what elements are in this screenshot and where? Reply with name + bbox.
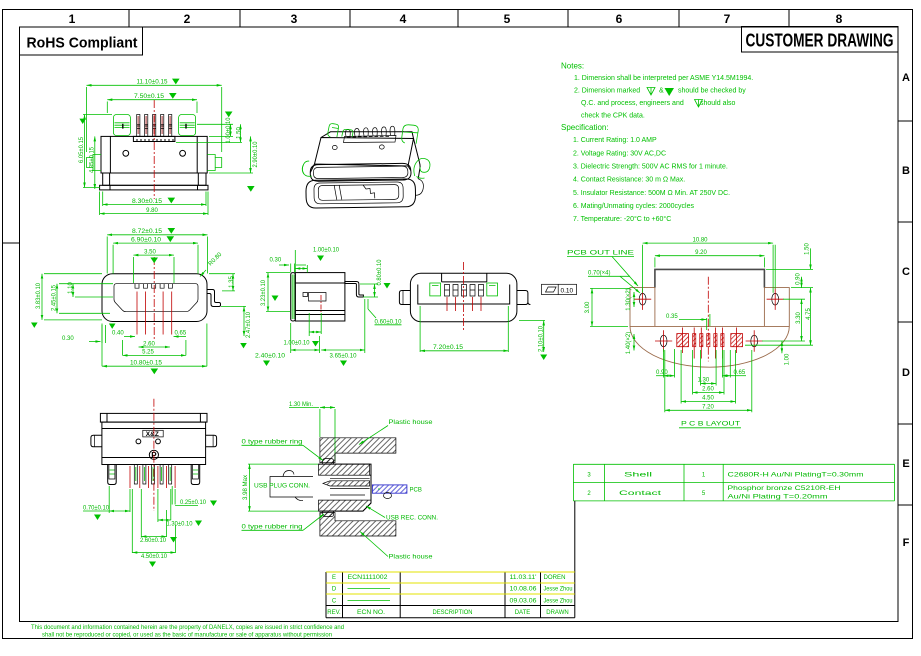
front view dim 5.25 — [123, 340, 186, 356]
svg-text:4.35±0.15: 4.35±0.15 — [90, 146, 96, 173]
svg-text:Shell: Shell — [624, 473, 652, 479]
svg-text:0.70(×4): 0.70(×4) — [588, 271, 611, 277]
side view: body — [295, 273, 345, 321]
svg-text:2.60: 2.60 — [702, 387, 714, 393]
svg-text:4: 4 — [400, 12, 407, 26]
flatness control frame — [542, 284, 577, 294]
pcb layout: connector shell outline — [655, 269, 765, 287]
top view: pin 3 — [153, 115, 156, 137]
front view dim 1.35 — [209, 274, 235, 291]
svg-text:1.40(×2): 1.40(×2) — [626, 332, 632, 355]
note 2 inspection symbols — [647, 88, 703, 108]
zone ticks top — [129, 10, 789, 28]
isometric view: collar ring — [310, 163, 411, 181]
front view dim 1.10 left — [68, 282, 113, 297]
notes text block — [561, 62, 753, 224]
svg-text:0 type rubber ring: 0 type rubber ring — [242, 525, 303, 531]
svg-text:6. Mating/Unmating cycles: 200: 6. Mating/Unmating cycles: 2000cycles — [573, 203, 694, 210]
svg-text:2.45±0.15: 2.45±0.15 — [52, 284, 58, 311]
svg-text:6: 6 — [616, 12, 623, 26]
front view dim 6.90 — [113, 236, 198, 273]
svg-text:DATE: DATE — [515, 610, 531, 616]
top view: right wing clip — [179, 115, 196, 136]
pcb layout title — [679, 422, 741, 428]
top view dim 8.30 bottom — [103, 192, 206, 207]
front view: solder tab right — [207, 290, 221, 307]
pcb layout: pcb outline ears and arc — [630, 288, 789, 368]
bottom view: left side tab — [91, 435, 102, 447]
svg-text:1.00±0.10: 1.00±0.10 — [226, 117, 232, 144]
top view dim 1.00 right — [197, 112, 233, 144]
isometric view: front body — [306, 179, 416, 208]
side view: flange — [291, 273, 296, 321]
top view dim 9.80 bottom — [100, 192, 208, 216]
pcb layout dim 0.65 — [722, 350, 746, 378]
svg-text:6.05±0.15: 6.05±0.15 — [79, 136, 85, 163]
svg-text:A: A — [902, 72, 910, 84]
section view: label pcb — [378, 488, 422, 494]
side view dim 3.65 — [321, 299, 365, 366]
svg-text:D: D — [332, 587, 337, 593]
front view: contact center marks — [137, 292, 172, 335]
svg-text:3: 3 — [587, 473, 591, 479]
svg-text:11.10±0.15: 11.10±0.15 — [137, 80, 169, 86]
title block row C — [332, 599, 573, 605]
svg-text:09.03.06: 09.03.06 — [510, 599, 538, 605]
section view: dim 3.98 Max — [243, 464, 318, 511]
svg-text:1. Current Rating: 1.0 AMP: 1. Current Rating: 1.0 AMP — [573, 137, 657, 144]
front view dim 3.50 — [133, 249, 174, 283]
bottom view: right side tab — [206, 435, 217, 447]
zone ticks right — [898, 121, 913, 505]
top view: pin 5 — [169, 115, 172, 137]
svg-text:10.08.06: 10.08.06 — [510, 587, 538, 593]
svg-text:0.90: 0.90 — [796, 273, 802, 285]
svg-text:PCB OUT LINE: PCB OUT LINE — [567, 251, 634, 257]
pcb layout dim 2.60 — [693, 350, 724, 395]
side view dim 1.00 top — [295, 248, 339, 273]
top view: body — [101, 136, 207, 173]
isometric view: clip top-left — [328, 124, 339, 137]
parts table row: shell — [587, 472, 864, 479]
bottom view: holes — [136, 439, 160, 444]
svg-text:E: E — [902, 458, 909, 470]
bottom view: contact pins comb — [134, 465, 171, 485]
svg-text:8: 8 — [836, 12, 843, 26]
svg-text:2: 2 — [587, 491, 591, 497]
svg-text:Plastic house: Plastic house — [389, 555, 434, 561]
front view dim 0.65 — [174, 331, 187, 337]
svg-text:2. Voltage Rating: 30V AC,DC: 2. Voltage Rating: 30V AC,DC — [573, 151, 666, 158]
svg-text:5. Insulator Resistance: 500M: 5. Insulator Resistance: 500M Ω Min. AT … — [573, 190, 730, 197]
front view dim 2.45 left — [52, 284, 114, 314]
svg-text:USB PLUG CONN.: USB PLUG CONN. — [254, 484, 310, 490]
section view: upper plastic house — [320, 438, 396, 463]
svg-text:1.00±0.10: 1.00±0.10 — [284, 341, 311, 347]
svg-text:11.03.11': 11.03.11' — [510, 575, 537, 581]
pcb layout dim 0.90 — [656, 349, 675, 378]
pcb layout dim 4.50 — [681, 350, 735, 404]
svg-text:3.98 Max: 3.98 Max — [243, 475, 249, 500]
isometric view: top face — [315, 132, 414, 166]
svg-text:9.20: 9.20 — [695, 250, 707, 256]
bottom view dim 0.70 — [83, 486, 130, 520]
svg-text:1.30(×2): 1.30(×2) — [626, 288, 632, 311]
svg-text:1.10: 1.10 — [68, 282, 74, 294]
back view: red pin marks — [447, 297, 481, 311]
section view: label plastic house upper — [359, 420, 433, 445]
section view: usb plug glyph — [270, 471, 313, 501]
section view: lower o-ring — [323, 511, 334, 517]
pcb layout: signal pads — [693, 328, 724, 359]
svg-text:Specification:: Specification: — [561, 123, 609, 132]
top view dim 1.50 right — [176, 124, 242, 142]
svg-text:3: 3 — [291, 12, 298, 26]
bottom view: left mount leg — [108, 465, 117, 485]
pcb layout dim 1.40(x2) — [626, 332, 634, 355]
front view: shell outline — [102, 274, 207, 322]
svg-text:2.90±0.10: 2.90±0.10 — [253, 141, 259, 168]
svg-text:CUSTOMER DRAWING: CUSTOMER DRAWING — [746, 31, 894, 51]
zone tick left — [3, 242, 20, 244]
top view: pin 4 — [161, 115, 164, 137]
side view dim 0.80 right — [360, 259, 391, 297]
svg-text:0.30: 0.30 — [62, 336, 74, 342]
front view dim 8.72 — [107, 228, 207, 274]
svg-text:DESCRIPTION: DESCRIPTION — [433, 610, 473, 616]
pcb layout: lower-left oval hole — [655, 330, 672, 351]
parts table grid — [573, 464, 894, 501]
section view: lower plastic house — [320, 513, 396, 537]
back view: green latch windows — [430, 283, 498, 296]
pcb layout: center line — [707, 277, 709, 362]
front view dim 3.83 left — [31, 274, 116, 329]
section view: dim 1.30 Min — [289, 402, 335, 461]
top view: flange — [103, 173, 206, 185]
pcb layout: left big pad — [677, 328, 689, 354]
svg-text:3.00: 3.00 — [585, 301, 591, 313]
svg-text:ECN NO.: ECN NO. — [357, 610, 385, 616]
front view dim 10.80 — [102, 324, 207, 375]
svg-text:1.30: 1.30 — [698, 378, 710, 384]
isometric view: clip left-mid — [302, 161, 312, 176]
svg-text:4.50±0.10: 4.50±0.10 — [141, 554, 168, 560]
top view: pin 1 — [137, 115, 140, 137]
top view dim 6.05 left — [79, 115, 112, 188]
pcb layout dim 1.30(x2) — [626, 288, 634, 311]
isometric view: clip top-right — [402, 125, 419, 144]
side view dim 0.60 — [368, 299, 402, 326]
pcb layout dim 1.50 right — [766, 243, 813, 289]
front view dim 0.30 left — [62, 325, 106, 343]
svg-text:1.00: 1.00 — [784, 353, 790, 365]
svg-text:USB REC. CONN.: USB REC. CONN. — [386, 516, 438, 522]
isometric view: pins row — [346, 126, 395, 136]
back view: left leg — [399, 291, 410, 305]
top view dim 11.10 — [87, 79, 222, 152]
svg-text:Jesse Zhou: Jesse Zhou — [544, 599, 573, 605]
svg-text:0.70±0.10: 0.70±0.10 — [83, 505, 110, 511]
svg-text:4.75: 4.75 — [806, 308, 812, 320]
svg-text:3.23±0.10: 3.23±0.10 — [261, 279, 267, 306]
svg-text:P C B LAYOUT: P C B LAYOUT — [681, 422, 740, 428]
pcb layout: lower-right oval hole — [746, 330, 763, 351]
svg-text:0.40: 0.40 — [112, 331, 124, 337]
RoHS Compliant box — [20, 27, 143, 55]
pcb layout: upper-left oval hole — [634, 289, 651, 310]
svg-text:DOREN: DOREN — [544, 575, 566, 581]
back view dim 7.20 — [420, 306, 508, 352]
svg-text:Q.C. and process, engineers an: Q.C. and process, engineers and — [581, 100, 684, 107]
svg-text:1.00±0.10: 1.00±0.10 — [313, 248, 340, 254]
svg-text:Plastic house: Plastic house — [389, 420, 434, 426]
svg-text:should also: should also — [700, 100, 736, 107]
svg-text:10.80±0.15: 10.80±0.15 — [130, 361, 163, 367]
svg-text:2. Dimension marked: 2. Dimension marked — [574, 88, 640, 95]
back view: center line — [463, 262, 465, 332]
bottom view: center line — [153, 399, 155, 511]
front view: center line — [153, 257, 155, 340]
svg-text:F: F — [903, 537, 910, 549]
svg-text:shall not be reproduced or: shall not be reproduced or copied, or us… — [42, 633, 332, 639]
section view: labels — [254, 484, 310, 490]
svg-text:check the CPK data.: check the CPK data. — [581, 113, 645, 120]
bottom view: body — [102, 422, 206, 464]
pcb layout dim 9.20 — [655, 250, 765, 267]
svg-text:0.30: 0.30 — [270, 258, 282, 264]
bottom view dim 4.50 — [132, 489, 175, 567]
section view: label o-ring upper — [242, 440, 324, 461]
svg-text:ECN1111002: ECN1111002 — [348, 575, 389, 581]
svg-text:0.10: 0.10 — [561, 287, 574, 294]
svg-text:1: 1 — [702, 473, 706, 479]
svg-text:&: & — [659, 88, 664, 95]
pcb layout: upper-right oval hole — [767, 289, 784, 310]
title block row D — [332, 587, 573, 593]
title block connector line — [574, 501, 576, 618]
svg-text:E: E — [332, 575, 336, 581]
svg-text:4. Contact Resistance: 30 m Ω: 4. Contact Resistance: 30 m Ω Max. — [573, 177, 685, 184]
svg-text:0.35: 0.35 — [666, 314, 678, 320]
back view dim 2.10 — [519, 321, 547, 361]
pcb layout dim 0.70(x4) — [588, 271, 640, 294]
pcb layout label — [567, 251, 638, 287]
svg-text:0.90: 0.90 — [656, 370, 668, 376]
top view dim 7.50 — [107, 93, 197, 113]
section view: upper o-ring — [323, 459, 334, 465]
svg-text:5.25: 5.25 — [142, 350, 154, 356]
svg-text:2.60±0.10: 2.60±0.10 — [140, 538, 167, 544]
svg-text:X&Z: X&Z — [146, 431, 159, 438]
svg-text:7.20: 7.20 — [702, 404, 714, 410]
top view: left side tab — [87, 155, 102, 171]
section view: tongue — [323, 478, 370, 495]
svg-text:1.30±0.10: 1.30±0.10 — [167, 522, 194, 528]
back view: shell outline — [410, 273, 517, 321]
svg-text:8.72±0.15: 8.72±0.15 — [132, 229, 163, 235]
side view: green flange lines — [292, 275, 294, 320]
section view: receptacle body — [319, 464, 372, 511]
svg-text:5: 5 — [702, 491, 706, 497]
svg-text:Phosphor bronze C5210R-EH: Phosphor bronze C5210R-EH — [728, 485, 841, 492]
pcb layout dim 1.00 right — [782, 341, 790, 365]
front view: opening — [114, 284, 198, 312]
isometric view: clip top-rear — [342, 129, 353, 136]
pcb layout: right big pad — [731, 328, 743, 354]
svg-text:6.90±0.10: 6.90±0.10 — [131, 237, 162, 243]
parts table row: contact — [587, 485, 841, 501]
svg-text:2.10±0.10: 2.10±0.10 — [538, 325, 544, 352]
isometric view: clip right-mid — [414, 158, 430, 178]
bottom view: top flange — [100, 413, 207, 422]
svg-text:C2680R-H Au/Ni PlatingT=0.30: C2680R-H Au/Ni PlatingT=0.30mm — [728, 472, 864, 479]
svg-text:2: 2 — [184, 12, 191, 26]
svg-text:Notes:: Notes: — [561, 62, 584, 71]
svg-text:0 type rubber ring: 0 type rubber ring — [242, 440, 303, 446]
svg-text:3. Dielectric Strength: 500V A: 3. Dielectric Strength: 500V AC RMS for … — [573, 164, 728, 171]
svg-text:2.47±0.10: 2.47±0.10 — [246, 311, 252, 338]
svg-text:7: 7 — [724, 12, 731, 26]
pcb layout dim 3.30 right — [762, 299, 805, 341]
svg-text:1. Dimension shall be interpre: 1. Dimension shall be interpreted per AS… — [574, 75, 753, 82]
bottom view dim 2.60 — [140, 489, 177, 544]
top view dim 2.90 right — [209, 136, 259, 191]
pcb layout dim 7.20 — [665, 350, 752, 412]
title block header row — [327, 610, 568, 616]
svg-text:2.60: 2.60 — [143, 341, 155, 347]
svg-text:7. Temperature: -20°C to +60°C: 7. Temperature: -20°C to +60°C — [573, 215, 671, 223]
svg-text:This document and informati: This document and information contained … — [31, 625, 344, 631]
svg-text:R0.80: R0.80 — [208, 251, 224, 267]
front view dim 2.60 — [139, 341, 170, 347]
section view: label o-ring lower — [242, 514, 325, 531]
svg-text:5: 5 — [504, 12, 511, 26]
svg-text:Au/Ni Plating T=0.20mm: Au/Ni Plating T=0.20mm — [728, 494, 828, 501]
svg-text:7.20±0.15: 7.20±0.15 — [433, 345, 464, 351]
side view dim 2.40 — [255, 323, 320, 366]
bottom confidentiality note — [31, 625, 344, 639]
bottom view: pin green marks — [136, 467, 170, 481]
svg-text:1.50: 1.50 — [804, 243, 810, 255]
svg-text:9.80: 9.80 — [146, 208, 158, 214]
svg-text:B: B — [902, 165, 910, 177]
svg-text:1: 1 — [69, 12, 76, 26]
svg-text:3.50: 3.50 — [144, 249, 156, 255]
top view: center line — [153, 100, 155, 199]
svg-text:3.30: 3.30 — [796, 312, 802, 324]
zone letters right — [902, 72, 910, 549]
pcb layout dim 4.75 right — [745, 288, 813, 346]
svg-text:D: D — [902, 367, 910, 379]
side view dim 1.00 bottom — [284, 313, 322, 347]
top view: screw holes — [123, 150, 186, 156]
svg-text:Contact: Contact — [619, 491, 662, 497]
svg-text:2.40±0.10: 2.40±0.10 — [255, 354, 286, 360]
svg-text:RoHS Compliant: RoHS Compliant — [27, 35, 138, 52]
bottom view dim 1.30 — [158, 489, 202, 528]
svg-text:4.50: 4.50 — [702, 396, 714, 402]
bottom view: P mark — [149, 450, 158, 460]
bottom view dim 0.25 — [172, 486, 217, 506]
section view: label plastic house lower — [360, 532, 433, 561]
section view: receptacle shell top — [319, 464, 370, 475]
svg-text:C: C — [902, 266, 910, 278]
svg-text:DRAWN: DRAWN — [546, 610, 568, 616]
front view label R0.80 — [200, 251, 224, 276]
svg-text:1.35: 1.35 — [229, 276, 235, 288]
top view: base plate — [100, 185, 208, 190]
svg-text:3.83±0.10: 3.83±0.10 — [36, 282, 42, 309]
svg-text:C: C — [332, 599, 337, 605]
svg-text:REV.: REV. — [327, 610, 341, 616]
pcb layout dim 3.00 — [585, 288, 630, 326]
isometric view: side lines — [310, 139, 423, 196]
svg-text:7.50±0.15: 7.50±0.15 — [134, 94, 165, 100]
svg-text:Jesse Zhou: Jesse Zhou — [544, 587, 573, 593]
back view: pin slots — [445, 285, 484, 297]
front view dim 2.47 — [221, 306, 252, 348]
back view: right leg — [517, 291, 531, 305]
bottom view: right mount leg — [191, 465, 200, 485]
isometric view: top face holes — [332, 145, 384, 150]
svg-text:0.65: 0.65 — [175, 331, 187, 337]
side view: center mark — [320, 295, 322, 312]
pcb layout dim 1.30 — [698, 350, 717, 386]
side view dim 3.23 left — [261, 273, 290, 312]
title block row E — [332, 575, 566, 581]
top view dim 4.35 left — [90, 136, 96, 189]
CUSTOMER DRAWING box — [742, 27, 899, 53]
pcb layout dim 10.80 — [643, 237, 774, 292]
pcb layout dim 0.35 — [666, 314, 710, 330]
section view: pcb board — [372, 485, 407, 499]
svg-text:0.25±0.10: 0.25±0.10 — [180, 500, 207, 506]
title block grid — [326, 572, 575, 618]
section view: label usb rec conn — [366, 506, 438, 522]
svg-text:3.65±0.10: 3.65±0.10 — [330, 354, 358, 360]
zone numbers top — [69, 12, 843, 26]
side view: inner latch detail — [303, 293, 326, 302]
svg-text:0.80±0.10: 0.80±0.10 — [377, 259, 383, 286]
svg-text:1.50: 1.50 — [236, 127, 242, 139]
top view: pin 2 — [145, 115, 148, 137]
section view: receptacle shell bottom — [319, 500, 372, 511]
pcb layout dim 0.90 right — [796, 273, 802, 288]
front view dim 0.40 — [112, 331, 135, 337]
svg-text:8.30±0.15: 8.30±0.15 — [132, 199, 163, 205]
isometric view: front D face — [314, 182, 403, 204]
svg-text:10.80: 10.80 — [692, 237, 708, 243]
isometric view: pin base strip — [344, 136, 397, 143]
svg-text:should be checked by: should be checked by — [678, 88, 746, 95]
side view: solder lead — [345, 282, 364, 298]
top view: left wing clip — [113, 115, 130, 136]
bottom view: X&Z label box — [143, 430, 163, 438]
svg-text:PCB: PCB — [410, 488, 422, 494]
bottom view: pin red marks — [130, 466, 175, 488]
side view dim 0.30 — [270, 258, 307, 273]
top view: right side tab — [207, 155, 222, 171]
